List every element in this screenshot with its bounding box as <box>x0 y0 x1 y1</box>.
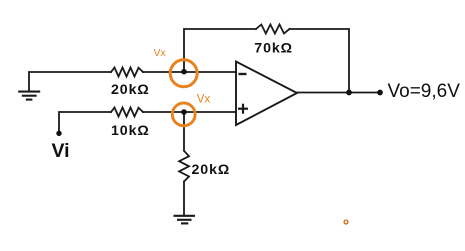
stray orange dot <box>344 220 348 224</box>
node Vx+ junction dot <box>181 109 187 115</box>
wire: non-inverting input right segment into op-amp <box>143 111 236 113</box>
resistor 20k inverting zigzag <box>111 68 143 77</box>
resistor 10k zigzag <box>111 108 143 117</box>
node Vx- highlight circle <box>170 60 197 87</box>
svg-text:20kΩ: 20kΩ <box>111 82 150 98</box>
node Vx- junction dot <box>181 69 187 75</box>
svg-text:20kΩ: 20kΩ <box>192 162 231 178</box>
svg-text:Vx: Vx <box>154 47 167 59</box>
svg-text:Vo=9,6V: Vo=9,6V <box>388 81 461 102</box>
ground (bottom, grounded resistor) <box>174 216 196 224</box>
wire: feedback right down to output <box>290 29 350 93</box>
wire: feedback top from node Vx- up and across <box>184 29 256 72</box>
op-amp minus pin label <box>239 73 247 75</box>
op-amp plus pin label <box>238 104 248 114</box>
svg-text:70kΩ: 70kΩ <box>254 40 293 56</box>
ground (left, inverting input) <box>18 92 40 100</box>
op-amp U1 triangle <box>236 62 297 126</box>
wire: non-inverting input left segment from Vi stub <box>59 112 111 133</box>
junction: feedback tap on output <box>346 90 352 96</box>
node Vi terminal dot <box>56 131 61 136</box>
wire: inverting input left segment from ground corner <box>29 72 111 91</box>
resistor 70k zigzag <box>256 25 290 34</box>
node Vx+ highlight circle <box>172 103 195 126</box>
svg-text:Vi: Vi <box>52 140 70 162</box>
svg-text:10kΩ: 10kΩ <box>111 123 150 139</box>
wire: grounded resistor to ground <box>183 182 185 216</box>
wire: inverting input right segment into op-amp <box>143 71 236 73</box>
wire: node Vx+ down to grounded resistor <box>183 112 185 151</box>
node Vo terminal dot <box>377 90 383 96</box>
resistor 20k grounded vertical zigzag <box>179 151 189 182</box>
wire: op-amp output <box>297 92 380 94</box>
svg-text:Vx: Vx <box>197 93 211 105</box>
